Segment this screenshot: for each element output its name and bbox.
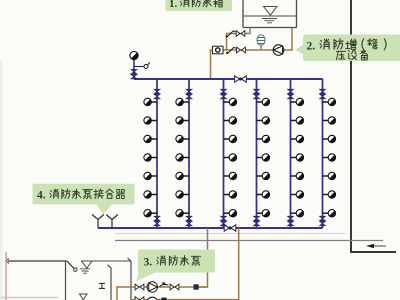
sprinkler top header bbox=[134, 78, 323, 80]
sprinkler head B5-1 bbox=[291, 98, 304, 105]
sprinkler head B6-4 bbox=[323, 154, 336, 161]
supply line to reservoir bbox=[6, 259, 67, 264]
label 3 fire pump bbox=[136, 250, 215, 282]
pump discharge riser 1 (brown) bbox=[199, 228, 208, 287]
sprinkler head B3-5 bbox=[224, 172, 237, 179]
tank outlet pipe left (brown) bbox=[227, 28, 251, 51]
reservoir water level symbol bbox=[80, 261, 92, 273]
sprinkler head B5-5 bbox=[291, 172, 304, 179]
signal valve on upper tank pipe bbox=[226, 31, 236, 38]
sprinkler bottom header bbox=[98, 227, 323, 229]
sprinkler head B3-7 bbox=[224, 210, 237, 217]
suction valve pump 1 bbox=[135, 284, 144, 290]
sprinkler head B2-5 bbox=[176, 172, 189, 179]
branch bottom valves bbox=[154, 216, 325, 225]
sprinkler head B2-1 bbox=[176, 98, 189, 105]
branch pipe B1 bbox=[156, 79, 158, 228]
float valve bbox=[67, 261, 74, 268]
sprinkler head B6-6 bbox=[323, 191, 336, 198]
sprinkler head B1-7 bbox=[144, 210, 157, 217]
sprinkler head B5-6 bbox=[291, 191, 304, 198]
fitting pump 2 bbox=[162, 298, 167, 300]
alarm valve assembly bbox=[130, 51, 150, 79]
label 4 pump connector bbox=[33, 184, 135, 214]
sprinkler head B2-4 bbox=[176, 154, 189, 161]
check valve on lower tank pipe bbox=[237, 47, 246, 53]
tank outlet pipe right (brown) bbox=[223, 28, 292, 51]
floor slab line bbox=[115, 240, 383, 242]
edge smudge bottom bbox=[0, 297, 58, 299]
floor line faint bbox=[115, 233, 345, 235]
feed pipe down to header (brown) bbox=[211, 50, 213, 78]
flexible joint with arrow bbox=[160, 282, 169, 287]
pump discharge riser 2 (brown) bbox=[238, 228, 240, 300]
sprinkler head B1-2 bbox=[144, 117, 157, 124]
branch pipe B6 bbox=[322, 79, 324, 228]
sprinkler head B1-3 bbox=[144, 135, 157, 142]
sprinkler head B3-1 bbox=[224, 98, 237, 105]
sprinkler head B5-4 bbox=[291, 154, 304, 161]
discharge fitting box bbox=[194, 284, 199, 289]
sprinkler head B3-4 bbox=[224, 154, 237, 161]
sprinkler head B1-1 bbox=[144, 98, 157, 105]
signal valve on lower tank pipe bbox=[226, 47, 236, 54]
svg-text:4.: 4. bbox=[37, 190, 46, 202]
sprinkler head B6-3 bbox=[323, 135, 336, 142]
branch pipe B5 bbox=[290, 79, 292, 228]
pump connector Y1 bbox=[92, 214, 104, 228]
stabilizing pump P3 bbox=[273, 45, 284, 56]
level gauge H mark bbox=[99, 283, 105, 288]
suction valve pump 2 bbox=[135, 297, 144, 300]
sprinkler head B3-6 bbox=[224, 191, 237, 198]
branch pipe B2 bbox=[188, 79, 190, 228]
sprinkler head B6-2 bbox=[323, 117, 336, 124]
tank water level symbol bbox=[262, 7, 277, 23]
pump row 2 line bbox=[131, 299, 239, 300]
branch pipe B3 bbox=[223, 79, 225, 228]
low level triangle bbox=[80, 294, 88, 300]
branch top valves bbox=[154, 89, 325, 98]
sprinkler head B2-2 bbox=[176, 117, 189, 124]
fire water tank T1 bbox=[243, 0, 297, 28]
sprinkler head B1-4 bbox=[144, 154, 157, 161]
sprinkler head B6-7 bbox=[323, 210, 336, 217]
sprinkler head B6-1 bbox=[323, 98, 336, 105]
reservoir right wall bbox=[128, 258, 132, 300]
check valve pump 1 bbox=[170, 284, 179, 290]
suction pipe (brown) bbox=[117, 287, 208, 300]
reservoir inner wall bbox=[108, 265, 112, 300]
label 2 pressure boosting equipment bbox=[296, 35, 400, 62]
sprinkler head B3-3 bbox=[224, 135, 237, 142]
check valve on top header bbox=[235, 76, 247, 82]
reservoir water line bbox=[81, 260, 131, 262]
svg-text:1.: 1. bbox=[169, 0, 178, 10]
main riser (right, black) bbox=[351, 0, 396, 252]
sprinkler head B5-7 bbox=[291, 210, 304, 217]
sprinkler head B5-3 bbox=[291, 135, 304, 142]
sprinkler head B4-2 bbox=[257, 117, 270, 124]
sprinkler head B4-4 bbox=[257, 154, 270, 161]
sprinkler head B3-2 bbox=[224, 117, 237, 124]
pump connector Y2 bbox=[106, 214, 118, 228]
sprinkler head B2-6 bbox=[176, 191, 189, 198]
sprinkler head B6-5 bbox=[323, 172, 336, 179]
check valve on upper tank pipe bbox=[236, 31, 245, 37]
check valve on bottom header bbox=[224, 225, 236, 231]
fire pump P2 (partly hidden) bbox=[147, 297, 158, 300]
svg-text:3.: 3. bbox=[144, 257, 153, 269]
svg-text:2.: 2. bbox=[307, 41, 316, 53]
flow meter box bbox=[213, 46, 224, 54]
pressure vessel (regulated tank) bbox=[257, 35, 266, 50]
sprinkler head B1-5 bbox=[144, 172, 157, 179]
sprinkler head B4-5 bbox=[257, 172, 270, 179]
label 1 fire water tank bbox=[166, 0, 233, 11]
branch pipe B4 bbox=[256, 79, 258, 228]
sprinkler head B4-7 bbox=[257, 210, 270, 217]
sprinkler head B5-2 bbox=[291, 117, 304, 124]
sprinkler head B4-3 bbox=[257, 135, 270, 142]
sprinkler head B4-6 bbox=[257, 191, 270, 198]
flow arrow on inlet main bbox=[366, 244, 386, 248]
reservoir left wall bbox=[65, 261, 67, 300]
sprinkler head B2-3 bbox=[176, 135, 189, 142]
edge smudge pink bbox=[5, 252, 7, 300]
sprinkler head B4-1 bbox=[257, 98, 270, 105]
sprinkler head B2-7 bbox=[176, 210, 189, 217]
fire pump P1 bbox=[147, 282, 157, 292]
sprinkler head B1-6 bbox=[144, 191, 157, 198]
